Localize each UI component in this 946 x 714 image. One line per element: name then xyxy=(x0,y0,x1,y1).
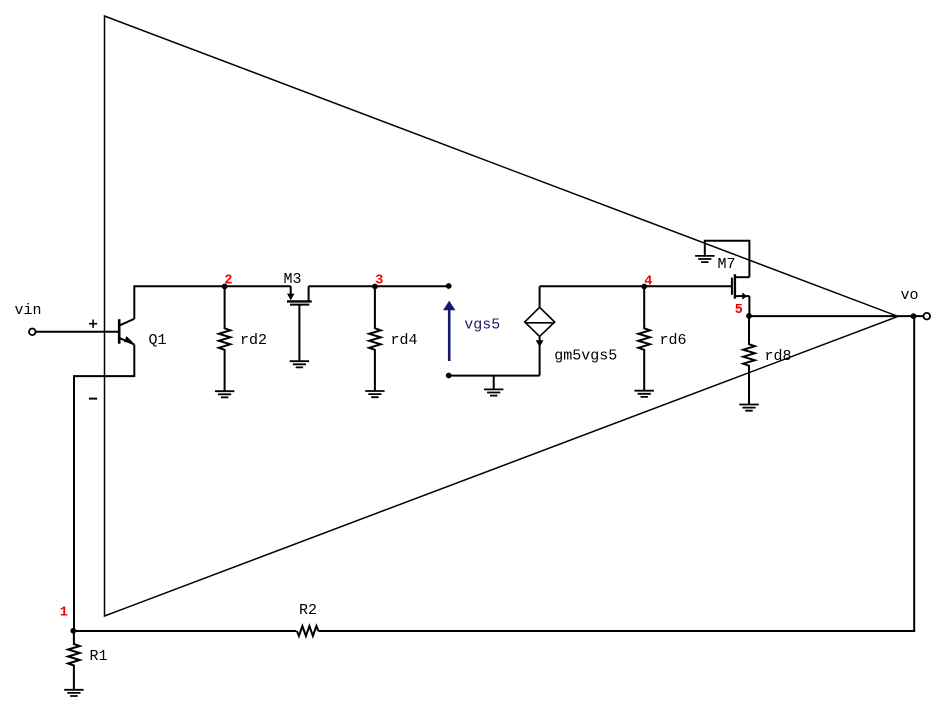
node 3 xyxy=(372,284,378,290)
svg-text:rd4: rd4 xyxy=(391,332,418,349)
svg-text:rd2: rd2 xyxy=(240,332,267,349)
svg-text:vo: vo xyxy=(901,287,919,304)
ground (rd6) xyxy=(635,391,654,397)
plus input label xyxy=(89,320,97,328)
svg-text:Q1: Q1 xyxy=(149,332,167,349)
wire M7 source to node 5 xyxy=(748,296,750,316)
wire vo down to feedback xyxy=(318,316,914,631)
svg-text:5: 5 xyxy=(735,303,743,318)
wire M7 drain to ground xyxy=(705,241,750,277)
ground (rd4) xyxy=(365,391,384,397)
wire M3 to node 3 xyxy=(309,285,375,287)
svg-text:M7: M7 xyxy=(718,256,736,273)
svg-text:rd6: rd6 xyxy=(660,332,687,349)
ground (rd2) xyxy=(215,391,234,397)
svg-text:rd8: rd8 xyxy=(765,348,792,365)
wire node 4 to M7 gate xyxy=(644,285,731,287)
svg-text:gm5vgs5: gm5vgs5 xyxy=(554,348,617,365)
svg-text:R1: R1 xyxy=(90,648,108,665)
svg-text:1: 1 xyxy=(60,605,68,620)
node 1 xyxy=(70,628,76,634)
dependent source gm5vgs5 xyxy=(525,286,555,375)
node 5 xyxy=(746,313,752,319)
resistor rd4 xyxy=(369,287,381,391)
ground (R1) xyxy=(64,690,83,696)
svg-text:vgs5: vgs5 xyxy=(464,317,500,334)
wire node 2 to M3 xyxy=(225,285,291,287)
vgs5 top terminal xyxy=(446,283,452,289)
op-amp triangle xyxy=(105,16,899,616)
wire Q1 emitter to feedback xyxy=(74,345,134,631)
ground (rd8) xyxy=(739,405,758,411)
svg-text:R2: R2 xyxy=(299,602,317,619)
resistor rd6 xyxy=(638,287,650,391)
svg-text:vin: vin xyxy=(15,302,42,319)
node 2 xyxy=(222,284,228,290)
wire node 3 to vgs5 terminal xyxy=(375,285,446,287)
svg-text:M3: M3 xyxy=(284,271,302,288)
minus input label xyxy=(89,398,97,400)
vo junction dot xyxy=(911,313,917,319)
ground (M3) xyxy=(290,361,309,367)
ground (vgs5 net) xyxy=(484,376,503,396)
vgs5 arrow xyxy=(443,301,455,361)
wire gm5vgs5 to node 4 xyxy=(540,285,645,287)
transistor M7 xyxy=(732,274,750,300)
wire vin to Q1 base xyxy=(36,331,119,333)
wire R2 to node 1 xyxy=(73,630,296,632)
wire Q1 collector to node 2 xyxy=(134,286,224,319)
resistor rd8 xyxy=(743,316,755,404)
vgs5 bottom terminal xyxy=(446,373,452,379)
ground (M7) xyxy=(695,256,714,262)
resistor rd2 xyxy=(219,287,231,391)
vin terminal xyxy=(29,329,36,336)
wire node 5 to vo xyxy=(749,315,924,317)
wire bottom terminal to gm5vgs5 xyxy=(449,375,540,377)
resistor R1 xyxy=(68,631,80,690)
resistor R2 xyxy=(297,626,319,636)
transistor Q1 xyxy=(119,319,134,345)
node 4 xyxy=(641,284,647,290)
transistor M3 xyxy=(287,286,312,361)
vo terminal xyxy=(924,313,931,320)
